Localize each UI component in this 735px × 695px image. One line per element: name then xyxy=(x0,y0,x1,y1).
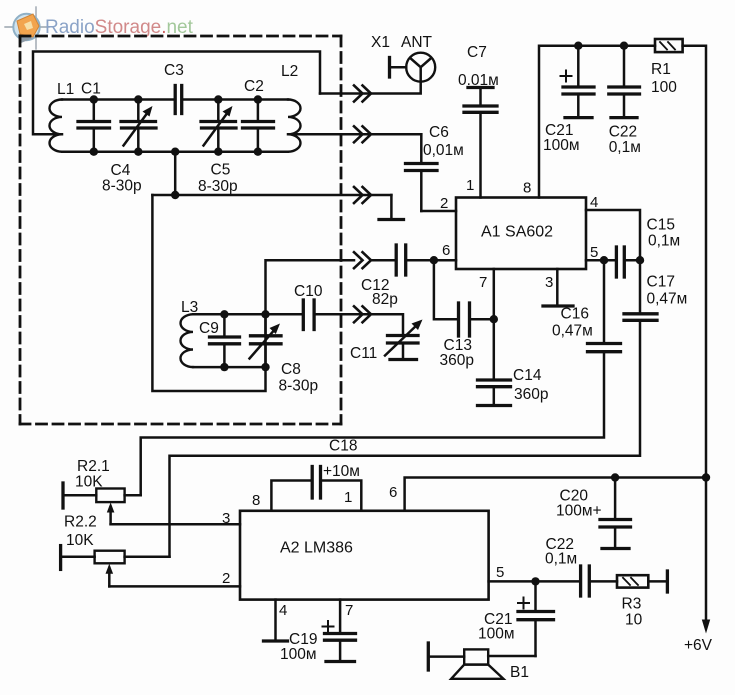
wire C12 to pin6 xyxy=(406,259,456,262)
connector arrow 5 xyxy=(354,306,371,322)
svg-text:5: 5 xyxy=(496,564,504,581)
svg-text:C15: C15 xyxy=(647,217,675,234)
potentiometer R2.1 xyxy=(63,483,141,524)
wire C15 to pin4 column xyxy=(624,259,640,262)
capacitor C15 xyxy=(616,247,624,277)
capacitor C2 xyxy=(243,100,274,152)
+6V supply arrow xyxy=(702,478,710,634)
dashed box RF input unit xyxy=(20,36,341,424)
capacitor C21 (bottom, electrolytic) xyxy=(518,581,554,656)
svg-text:10K: 10K xyxy=(75,474,103,491)
svg-text:0,1м: 0,1м xyxy=(609,139,641,156)
svg-text:L2: L2 xyxy=(281,63,298,80)
capacitor C1 xyxy=(78,100,110,152)
node pin4/C15/C17 junction xyxy=(636,256,644,264)
capacitor C22 (top) xyxy=(609,46,640,118)
inductor L2 (with tap) xyxy=(288,100,301,152)
svg-text:0,1м: 0,1м xyxy=(545,551,577,568)
capacitor C12 xyxy=(396,245,406,275)
svg-text:360p: 360p xyxy=(440,352,474,369)
svg-text:C16: C16 xyxy=(561,306,589,323)
inductor L1 (with tap) xyxy=(50,100,62,152)
node pin5 output junction xyxy=(531,577,539,585)
svg-text:C9: C9 xyxy=(199,320,219,337)
svg-text:C2: C2 xyxy=(244,78,264,95)
wire oscillator output to C12 xyxy=(266,260,355,367)
svg-text:C17: C17 xyxy=(647,274,675,291)
svg-text:C10: C10 xyxy=(294,283,323,300)
svg-text:ANT: ANT xyxy=(401,34,433,51)
wire pin4 to C17 column xyxy=(586,210,640,314)
capacitor C3 xyxy=(175,86,182,114)
svg-text:5: 5 xyxy=(590,244,598,261)
svg-text:100м: 100м xyxy=(280,646,317,663)
wire C10 to C11 xyxy=(314,314,403,335)
wire pin5 to C15 xyxy=(586,259,616,262)
wire L3 top to C10 row xyxy=(266,313,304,316)
svg-text:8: 8 xyxy=(523,180,531,197)
svg-text:4: 4 xyxy=(279,602,287,619)
wire C13 to pin7 node xyxy=(470,318,494,321)
capacitor C22 (series, bottom) xyxy=(581,566,590,596)
op-amp/IC A2 LM386 xyxy=(240,511,489,600)
svg-text:4: 4 xyxy=(590,194,598,211)
connector arrow 2 xyxy=(354,126,371,142)
capacitor C10 xyxy=(303,300,314,330)
ground stub after arrow 3 xyxy=(379,195,404,220)
ground stub pin 3 xyxy=(543,269,573,306)
svg-text:8-30p: 8-30p xyxy=(279,378,319,395)
wire pin6 node down to C13 xyxy=(434,260,459,319)
capacitor C20 (electrolytic) xyxy=(600,478,631,549)
svg-text:82p: 82p xyxy=(372,291,398,308)
capacitor C5 (variable) xyxy=(201,100,236,152)
svg-text:100м: 100м xyxy=(478,626,515,643)
node common junction xyxy=(171,191,179,199)
svg-text:360p: 360p xyxy=(514,386,548,403)
svg-text:3: 3 xyxy=(545,274,553,291)
wire C18 to pin 1 (A2) xyxy=(321,481,362,511)
wire C16 to R2.1 (wire A) xyxy=(141,352,604,496)
wire L3 tank top rail xyxy=(193,313,266,316)
svg-text:7: 7 xyxy=(345,602,353,619)
logo RadioStorage.net xyxy=(5,7,194,49)
capacitor C14 xyxy=(478,319,511,405)
svg-text:+10м: +10м xyxy=(323,463,360,480)
wire R1 to +6V vertical rail xyxy=(683,46,706,478)
svg-text:C11: C11 xyxy=(350,345,377,362)
svg-text:0,47м: 0,47м xyxy=(647,291,688,308)
node L3 tank junctions xyxy=(220,310,269,371)
capacitor C7 xyxy=(464,88,497,198)
wire common node row to ground connector xyxy=(152,194,391,197)
wire tank1 bottom to common node xyxy=(174,152,177,195)
svg-text:B1: B1 xyxy=(510,664,529,681)
svg-text:7: 7 xyxy=(479,274,487,291)
capacitor C21 (top, electrolytic) xyxy=(561,46,595,118)
capacitor C9 xyxy=(210,314,240,367)
svg-text:1: 1 xyxy=(466,177,474,194)
connector arrow 4 xyxy=(354,252,371,268)
capacitor C19 (electrolytic on pin 7) xyxy=(323,600,356,662)
capacitor C6 xyxy=(406,134,438,211)
wire R2.2 wiper to pin2 xyxy=(109,585,240,588)
wire C17 to R2.2 (wire B) xyxy=(170,320,641,557)
svg-text:C1: C1 xyxy=(81,81,101,98)
wire C6 to pin2 xyxy=(421,210,456,213)
wire C21 to speaker xyxy=(488,655,535,658)
svg-text:10: 10 xyxy=(625,612,643,629)
resistor R3 xyxy=(617,575,648,587)
connector arrow 1 (antenna input) xyxy=(354,86,371,102)
svg-text:1: 1 xyxy=(344,489,352,506)
wire L3 loop (left and bottom of local oscillator box) xyxy=(152,195,265,391)
svg-text:0,1м: 0,1м xyxy=(648,233,680,250)
wire L2-tap to C6 xyxy=(288,133,421,136)
wire C22 to R3 xyxy=(589,580,617,583)
svg-text:C22: C22 xyxy=(609,124,637,141)
svg-text:2: 2 xyxy=(222,570,230,587)
potentiometer R2.2 xyxy=(61,546,170,587)
wire R2.1 wiper to pin3 xyxy=(111,523,240,526)
svg-text:8-30p: 8-30p xyxy=(102,178,142,195)
speaker B1 xyxy=(428,643,503,679)
svg-text:+6V: +6V xyxy=(684,637,713,654)
wire antenna-to-L1-tap (top) xyxy=(33,52,320,135)
capacitor C13 xyxy=(459,303,470,336)
svg-text:C7: C7 xyxy=(467,44,487,61)
svg-text:A2 LM386: A2 LM386 xyxy=(280,540,353,557)
pin 4 stub with ground xyxy=(264,600,288,641)
wire arrow4 to C12 xyxy=(371,259,396,262)
resistor R1 xyxy=(655,39,683,52)
wire tank1 top rail xyxy=(62,98,288,101)
antenna ANT xyxy=(406,53,435,82)
svg-text:8: 8 xyxy=(252,492,260,509)
svg-text:C14: C14 xyxy=(513,367,542,384)
svg-text:C18: C18 xyxy=(329,438,357,455)
capacitor C11 (variable) xyxy=(385,320,423,360)
svg-text:C6: C6 xyxy=(429,124,449,141)
svg-text:6: 6 xyxy=(442,242,450,259)
svg-text:2: 2 xyxy=(440,195,448,212)
inductor L3 xyxy=(180,314,193,367)
svg-text:3: 3 xyxy=(222,510,230,527)
svg-text:R3: R3 xyxy=(622,596,642,613)
svg-text:C8: C8 xyxy=(281,361,301,378)
capacitor C8 (variable) xyxy=(250,314,282,367)
svg-text:R1: R1 xyxy=(651,61,671,78)
svg-text:6: 6 xyxy=(389,484,397,501)
wire R3 to open terminal xyxy=(648,571,667,592)
capacitor C4 (variable) xyxy=(121,100,156,152)
op-amp/IC A1 SA602 xyxy=(456,198,586,270)
capacitor C16 (on pin5 node) xyxy=(588,260,621,352)
svg-text:X1: X1 xyxy=(371,34,390,51)
connector arrow 3 xyxy=(354,187,371,203)
svg-text:C4: C4 xyxy=(111,162,131,179)
node rail junctions C21 C22 xyxy=(574,42,628,50)
connector X1 xyxy=(390,58,407,78)
svg-text:R2.1: R2.1 xyxy=(77,458,110,475)
node pin7/C13/C14 junction xyxy=(490,315,498,323)
svg-text:100: 100 xyxy=(651,79,677,96)
node pin5 junction xyxy=(600,256,608,264)
svg-text:100м+: 100м+ xyxy=(556,503,602,520)
wire pin8 to +6V rail xyxy=(539,46,655,198)
svg-text:C3: C3 xyxy=(164,62,184,79)
svg-text:0,47м: 0,47м xyxy=(552,323,593,340)
wire L3 tank bottom rail xyxy=(193,366,266,369)
svg-text:100м: 100м xyxy=(543,137,580,154)
svg-text:8-30p: 8-30p xyxy=(198,178,238,195)
svg-text:C5: C5 xyxy=(211,162,231,179)
wire tank1 bottom rail xyxy=(62,150,288,153)
node pin6 junction xyxy=(430,256,438,264)
svg-text:0.01м: 0.01м xyxy=(458,72,499,89)
capacitor C17 xyxy=(624,314,657,321)
wire pin5 (A2) output xyxy=(489,580,581,583)
svg-text:A1 SA602: A1 SA602 xyxy=(481,224,553,241)
wire pin7 stub xyxy=(493,269,496,319)
svg-text:0,01м: 0,01м xyxy=(423,142,464,159)
pin 8 stub (A2) xyxy=(271,481,312,511)
svg-text:R2.2: R2.2 xyxy=(64,514,97,531)
node tank1 bottom junctions xyxy=(90,148,263,156)
node tank1 top junctions xyxy=(90,95,263,103)
node +6V rail junction xyxy=(702,473,710,481)
svg-text:L1: L1 xyxy=(57,81,74,98)
svg-text:10K: 10K xyxy=(66,532,94,549)
node C20 tap junction xyxy=(611,473,619,481)
pin 6 stub and +6V feed wire xyxy=(405,478,706,511)
wire arrow1-to-antenna xyxy=(320,82,421,94)
capacitor C18 (electrolytic 10м) xyxy=(312,467,320,499)
